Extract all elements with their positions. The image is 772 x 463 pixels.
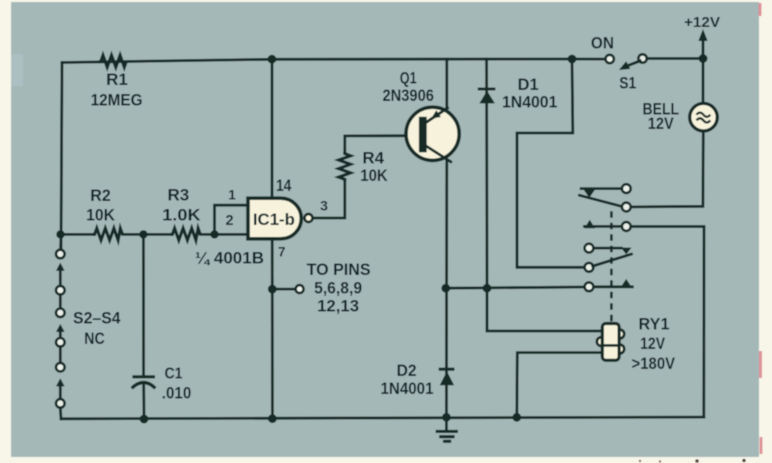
svg-text:TO PINS: TO PINS [307,260,371,279]
svg-text:14: 14 [276,176,292,195]
svg-text:10K: 10K [86,205,116,224]
svg-text:7: 7 [278,244,286,259]
+12V supply arrow [702,39,705,59]
wire top to Q1 emitter [445,59,448,108]
wire NO row to relay area [446,287,585,288]
wire NO to right bus [631,227,704,418]
svg-text:10K: 10K [360,166,388,185]
relay contact set 1 NO line [585,220,596,229]
wire jog to gate pin 1 [215,205,249,234]
svg-text:2: 2 [225,213,233,229]
relay coil RY1 [597,337,606,346]
svg-text:1N4001: 1N4001 [502,92,558,111]
svg-text:NC: NC [84,329,105,348]
resistor R2 [93,228,123,240]
svg-text:S2–S4: S2–S4 [73,309,121,328]
svg-text:.010: .010 [162,383,192,402]
wire to gate pin 2 [200,233,248,236]
diode D2 [439,368,455,371]
relay contact set 2 [585,244,594,253]
svg-text:¼ 4001B: ¼ 4001B [195,249,264,268]
svg-text:>180V: >180V [632,354,676,373]
wire pin 14 vertical [271,59,274,198]
svg-text:IC1-b: IC1-b [253,210,295,229]
svg-text:1.0K: 1.0K [162,205,201,224]
resistor R4 [339,152,351,181]
wire Q1 collector down [445,160,448,417]
relay contact set 1 NC line [581,187,622,190]
bell BL1 [690,103,718,131]
TO PINS stub [272,288,295,291]
bottom bus wire [61,417,704,419]
relay actuator dashed link [610,211,613,322]
op-amp gate IC1-b [248,198,301,239]
svg-text:2N3906: 2N3906 [382,86,434,105]
wire top bus [62,59,572,63]
wire pin 7 vertical [271,239,274,419]
wire to bell [702,59,705,104]
S2-S4 NC switch chain [59,234,62,249]
wire D1 node to coil top [487,288,603,331]
wire switch node jog down to relay contact [517,59,585,267]
ground [445,417,448,430]
resistor R3 [171,228,201,240]
gate output bubble [305,214,313,222]
page margin noise marks [759,3,762,16]
switch S1 [572,58,606,61]
svg-text:R1: R1 [106,70,128,89]
wire gate output to R4 [313,181,345,218]
svg-text:12V: 12V [648,114,675,133]
svg-text:ON: ON [591,34,614,53]
transistor Q1 [406,107,459,160]
wire coil bottom to ground bus [517,353,603,418]
capacitor C1 branch wire [142,234,145,375]
wire [123,233,171,236]
svg-text:Q1: Q1 [400,69,417,88]
wire D1 branch [485,59,488,288]
diode D1 [478,87,496,90]
svg-text:3: 3 [320,198,328,214]
svg-text:D2: D2 [397,361,417,380]
svg-text:12V: 12V [640,334,666,353]
svg-text:R4: R4 [362,149,384,168]
wire left vertical [61,63,62,251]
svg-text:D1: D1 [518,75,539,94]
svg-text:5,6,8,9: 5,6,8,9 [314,279,362,298]
svg-text:1: 1 [228,186,236,202]
svg-text:+12V: +12V [684,14,720,31]
svg-text:C1: C1 [165,366,183,383]
scan light patch [11,54,23,86]
wire bell to contact common [631,132,703,207]
capacitor C1 [132,375,155,378]
svg-text:1N4001: 1N4001 [381,379,434,398]
relay contact set 1 blade [580,195,623,206]
svg-text:R3: R3 [168,185,190,204]
wire R2/R3 row [61,233,93,236]
junction dots [268,55,277,64]
svg-text:12MEG: 12MEG [91,91,143,110]
wire R4 to base [345,136,420,152]
svg-text:R2: R2 [90,186,111,205]
svg-text:RY1: RY1 [639,315,670,334]
svg-text:12,13: 12,13 [317,297,359,316]
svg-text:S1: S1 [619,73,636,92]
resistor R1 [99,55,126,67]
